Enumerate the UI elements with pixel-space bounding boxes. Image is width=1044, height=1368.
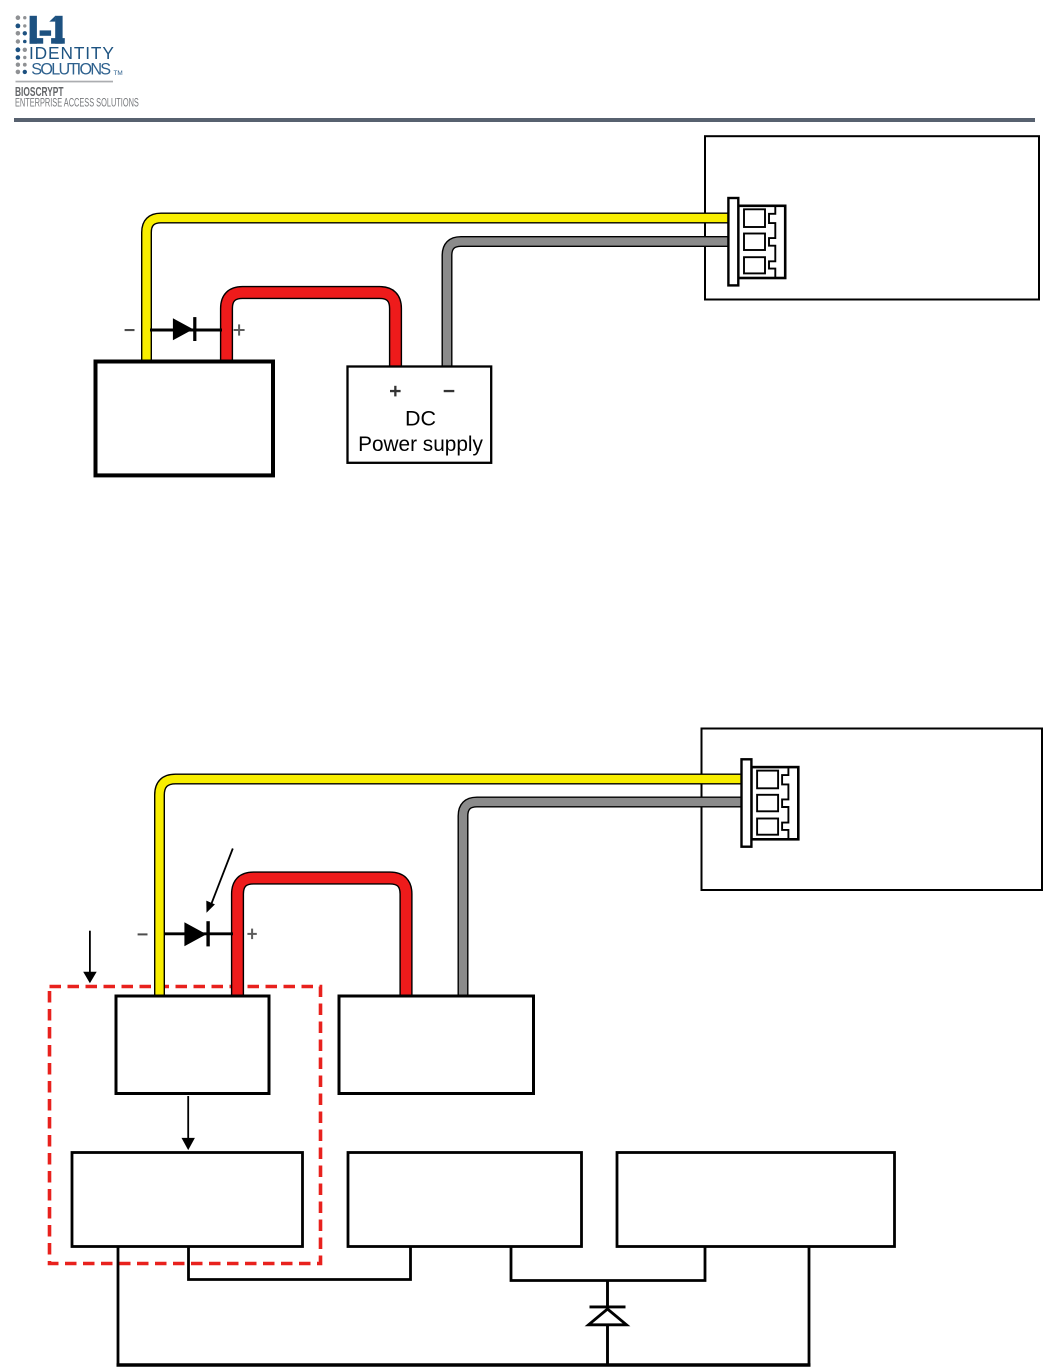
svg-text:Power supply: Power supply [358, 433, 483, 456]
svg-text:DC: DC [405, 407, 436, 431]
